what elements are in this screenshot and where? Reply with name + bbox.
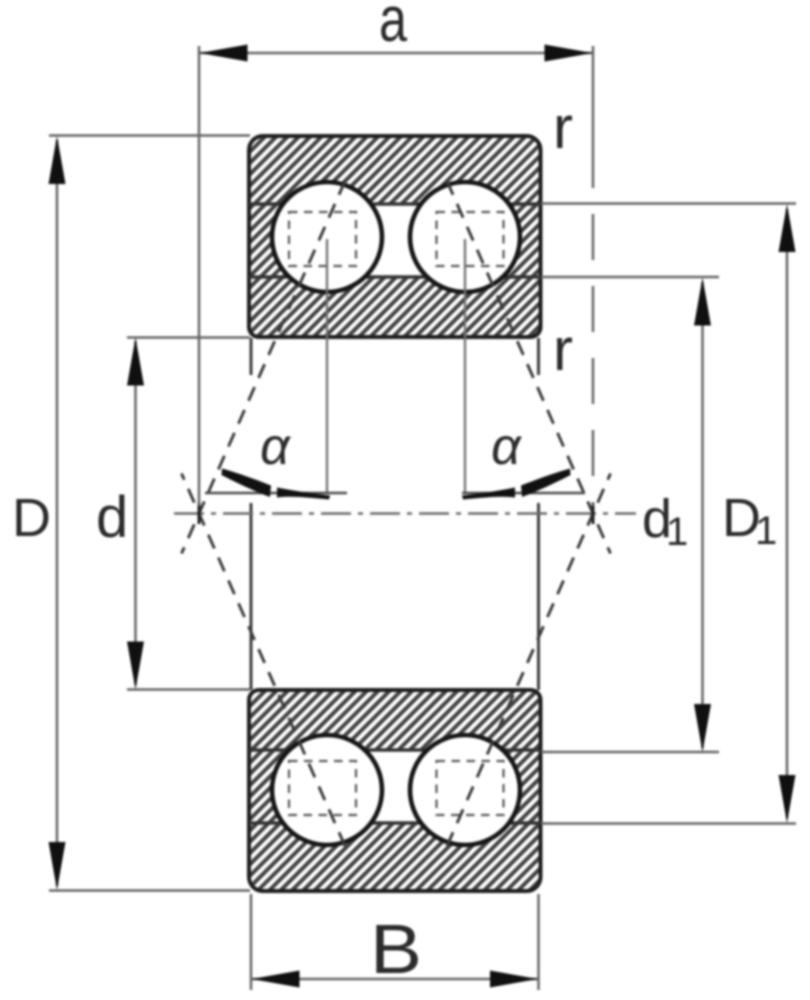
dimension line D1 xyxy=(786,209,789,818)
cage pocket upper-left (dashed) xyxy=(289,212,356,266)
alpha reference line left xyxy=(205,492,347,495)
outer raceway shoulder line lower (D1 surface) xyxy=(249,821,541,824)
extension line d1 top xyxy=(541,276,719,279)
alpha arc arrow left (tail) xyxy=(277,488,330,500)
extension line B left xyxy=(250,894,253,990)
alpha reference line right xyxy=(462,492,585,495)
bore silhouette edge left (upper stub) xyxy=(250,338,253,375)
svg-text:r: r xyxy=(553,316,573,383)
arrowhead D1 top xyxy=(779,204,796,252)
bearing upper ring section (hatched) xyxy=(249,136,541,337)
outer raceway shoulder line upper (D1 surface) xyxy=(249,202,541,205)
bore silhouette edge right (lower) xyxy=(537,503,540,690)
svg-text:D: D xyxy=(12,488,51,548)
contact line upper-left (dashed) xyxy=(182,181,346,554)
ball axis line left xyxy=(326,239,328,493)
arrowhead B right xyxy=(490,971,538,988)
cage pocket lower-left (dashed) xyxy=(289,761,356,815)
extension line D1 top xyxy=(541,202,796,205)
arrowhead d bottom xyxy=(127,642,144,690)
ball axis line right xyxy=(464,239,466,493)
extension line d bottom xyxy=(127,688,250,691)
dimension line a xyxy=(199,52,593,55)
arrowhead D top xyxy=(49,136,66,184)
bore silhouette edge left (lower) xyxy=(250,503,253,690)
alpha arc arrow left (head) xyxy=(222,469,272,498)
ball lower-left xyxy=(272,735,382,845)
pressure center tick left xyxy=(198,503,201,524)
svg-text:a: a xyxy=(379,0,407,55)
extension line D top xyxy=(49,134,250,137)
centerline bearing axis (dash-dot) xyxy=(174,512,636,515)
svg-text:B: B xyxy=(370,910,422,988)
extension line a right (vertical, part dashed) xyxy=(592,46,595,188)
dimension line D xyxy=(56,140,59,886)
dimension line d1 xyxy=(701,282,704,748)
svg-text:α: α xyxy=(260,418,291,476)
contact line upper-right (dashed) xyxy=(447,181,611,554)
ball upper-left xyxy=(272,182,382,292)
arrowhead B left xyxy=(252,971,300,988)
cage pocket upper-right (dashed) xyxy=(437,212,504,266)
extension line B right xyxy=(537,894,540,990)
inner raceway shoulder line upper (d1 surface) xyxy=(249,275,541,278)
arrowhead a left xyxy=(200,45,248,62)
cage pocket lower-right (dashed) xyxy=(437,761,504,815)
extension line D1 bottom xyxy=(541,822,796,825)
bearing lower ring section (hatched) xyxy=(249,690,541,891)
extension line d top xyxy=(127,336,250,339)
arrowhead a right xyxy=(545,45,593,62)
svg-text:r: r xyxy=(553,94,573,161)
svg-text:d: d xyxy=(96,485,128,550)
inner raceway shoulder line lower (d1 surface) xyxy=(249,748,541,751)
contact line lower-left (dashed) xyxy=(182,474,346,847)
extension line d1 bottom xyxy=(541,751,719,754)
bore silhouette edge right (upper stub) xyxy=(537,338,540,375)
arrowhead D1 bottom xyxy=(779,775,796,823)
pressure center tick right xyxy=(592,503,595,524)
ball upper-right xyxy=(410,182,520,292)
svg-text:α: α xyxy=(491,418,522,476)
alpha arc arrow right (head) xyxy=(521,469,571,498)
dimension line B xyxy=(251,978,539,981)
raceway gap between upper balls (white) xyxy=(330,204,462,277)
contact line lower-right (dashed) xyxy=(447,474,611,847)
alpha arc arrow right (tail) xyxy=(462,488,515,500)
arrowhead d1 top xyxy=(694,278,711,326)
arrowhead d1 bottom xyxy=(694,704,711,752)
dimension line d xyxy=(134,341,137,685)
arrowhead d top xyxy=(127,338,144,386)
arrowhead D bottom xyxy=(49,842,66,890)
raceway gap between lower balls (white) xyxy=(330,750,462,823)
extension line D bottom xyxy=(49,889,250,892)
ball lower-right xyxy=(410,735,520,845)
extension line a left (vertical) xyxy=(198,46,201,506)
